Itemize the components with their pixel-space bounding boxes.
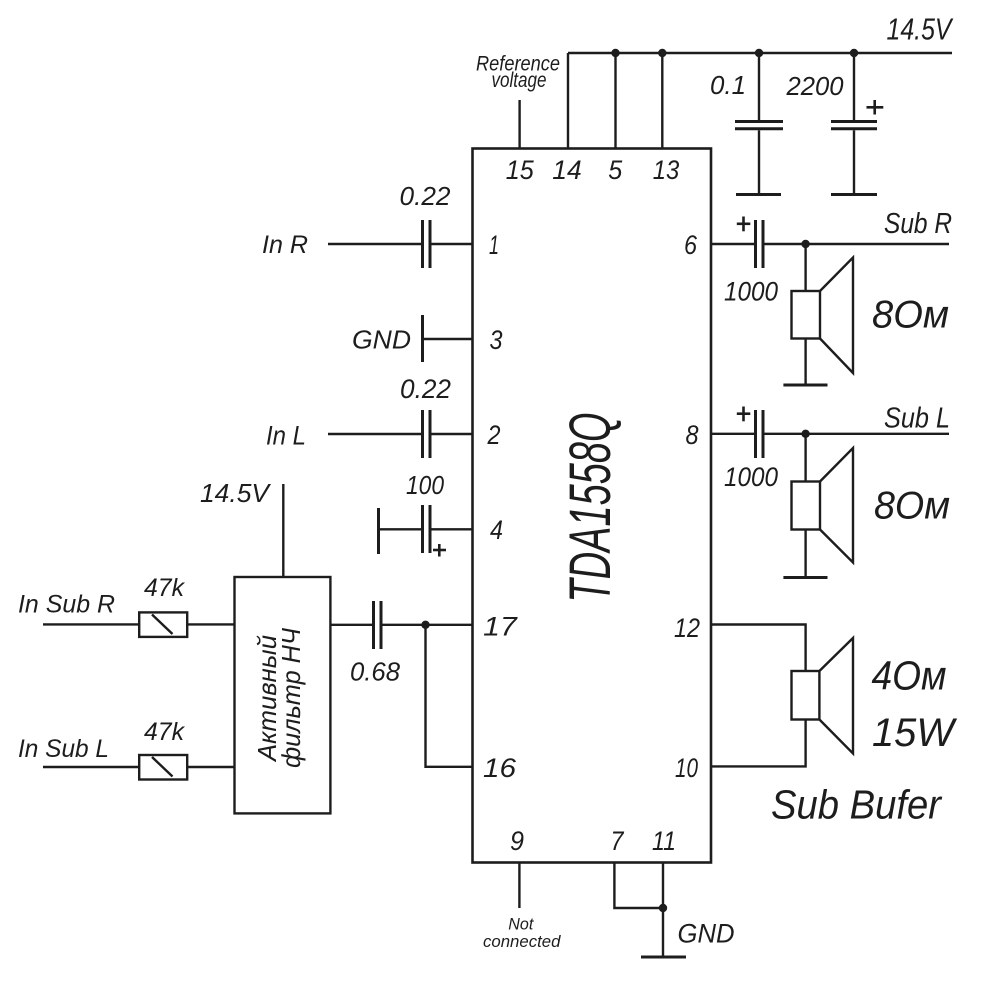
speaker LS1 8 Ohm — [783, 258, 853, 386]
wire 14.5V power rail — [568, 52, 952, 54]
svg-text:GND: GND — [352, 325, 411, 355]
wire pin 6 to C7 — [711, 243, 754, 245]
svg-text:47k: 47k — [144, 718, 185, 746]
wire C8 to Sub L out — [765, 433, 950, 435]
wire C3 to pin 1 — [432, 243, 473, 245]
wire pin 13 to rail — [661, 53, 663, 149]
svg-text:4Ом: 4Ом — [872, 653, 947, 699]
svg-text:17: 17 — [483, 612, 518, 642]
svg-text:11: 11 — [652, 826, 676, 856]
capacitor C6 0.68 — [374, 601, 382, 649]
svg-text:In Sub R: In Sub R — [18, 591, 115, 619]
node junction rail-pin13 — [658, 49, 666, 57]
svg-text:100: 100 — [406, 470, 444, 500]
speaker LS2 8 Ohm — [783, 448, 853, 578]
wire In R to C3 — [328, 243, 421, 245]
svg-text:In R: In R — [262, 231, 308, 259]
wire pin 14 to rail — [567, 53, 569, 149]
svg-text:8Ом: 8Ом — [874, 485, 950, 528]
svg-text:3: 3 — [490, 325, 503, 355]
wire 14.5V to filter box — [282, 484, 284, 577]
op-amp U1 TDA1558Q body — [473, 149, 712, 863]
svg-text:Sub L: Sub L — [884, 403, 950, 435]
wire C4 to pin 2 — [432, 433, 473, 435]
wire In L to C4 — [328, 433, 421, 435]
capacitor C3 0.22 — [423, 220, 431, 268]
svg-text:фильтр НЧ: фильтр НЧ — [276, 628, 306, 768]
wire C7 to Sub R out — [765, 243, 950, 245]
svg-text:1000: 1000 — [724, 277, 778, 307]
svg-text:14: 14 — [552, 155, 581, 185]
wire pin 12 to speaker LS3 — [711, 625, 806, 672]
wire In Sub R to R1 — [43, 623, 139, 625]
wire pin 5 to rail — [614, 53, 616, 149]
wire pin 9 stub — [518, 863, 520, 909]
svg-text:GND: GND — [678, 919, 735, 949]
svg-text:0.68: 0.68 — [350, 657, 401, 687]
svg-text:TDA1558Q: TDA1558Q — [558, 413, 623, 603]
svg-text:15W: 15W — [872, 711, 957, 755]
node junction pin7-pin11 — [659, 904, 667, 912]
svg-text:Not: Not — [508, 915, 534, 934]
resistor R2 47k — [139, 755, 187, 780]
svg-text:0.22: 0.22 — [400, 181, 452, 211]
wire filter out to C6 — [330, 624, 372, 626]
ground stub pin 3 — [421, 315, 424, 362]
svg-text:voltage: voltage — [492, 69, 547, 92]
wire R2 to filter box — [187, 766, 234, 768]
node junction rail-C1 — [755, 49, 763, 57]
svg-text:0.1: 0.1 — [710, 70, 746, 100]
wire R1 to filter box — [187, 623, 234, 625]
wire to speaker LS2 — [804, 434, 806, 482]
node junction pin17 branch — [421, 621, 429, 629]
svg-text:16: 16 — [483, 753, 517, 783]
svg-text:13: 13 — [653, 155, 680, 185]
svg-text:4: 4 — [490, 515, 503, 545]
svg-text:2200: 2200 — [786, 71, 845, 101]
svg-text:In Sub L: In Sub L — [18, 735, 109, 763]
wire C5 to pin 4 — [432, 528, 473, 530]
capacitor C1 0.1 — [735, 53, 783, 195]
capacitor C7 1000 polarized — [737, 217, 763, 269]
svg-text:10: 10 — [675, 753, 698, 783]
node junction speaker Sub L — [801, 430, 809, 438]
svg-text:9: 9 — [510, 826, 524, 856]
node junction speaker Sub R — [801, 240, 809, 248]
svg-text:14.5V: 14.5V — [887, 12, 955, 47]
wire pin 8 to C8 — [711, 433, 754, 435]
svg-text:1: 1 — [489, 230, 499, 260]
svg-text:5: 5 — [608, 155, 623, 185]
wire pin 10 to speaker LS3 — [711, 720, 806, 767]
svg-text:1000: 1000 — [724, 462, 778, 492]
svg-text:6: 6 — [684, 230, 698, 260]
wire C6 to pin 17 — [383, 624, 473, 626]
svg-text:8Ом: 8Ом — [872, 294, 949, 337]
wire In Sub L to R2 — [43, 766, 139, 768]
capacitor C8 1000 polarized — [737, 407, 763, 459]
svg-text:8: 8 — [686, 420, 699, 450]
svg-text:2: 2 — [487, 420, 501, 450]
wire pin 7 to gnd node — [614, 863, 663, 909]
wire pin 15 stub — [518, 100, 520, 149]
wire gnd to pin 3 — [424, 338, 473, 340]
resistor R1 47k — [139, 612, 187, 637]
svg-text:Sub Bufer: Sub Bufer — [771, 782, 943, 828]
speaker LS3 4 Ohm — [792, 638, 854, 754]
capacitor C2 2200 polarized — [831, 53, 883, 195]
node junction rail-pin5 — [611, 49, 619, 57]
svg-text:0.22: 0.22 — [400, 374, 451, 404]
svg-text:7: 7 — [611, 826, 625, 856]
svg-text:12: 12 — [674, 613, 700, 643]
node junction rail-C2 — [850, 49, 858, 57]
svg-text:47k: 47k — [144, 574, 185, 602]
svg-text:14.5V: 14.5V — [200, 478, 272, 508]
wire to speaker LS1 — [804, 244, 806, 291]
svg-text:15: 15 — [506, 155, 535, 185]
wire pin 11 to ground — [662, 863, 664, 957]
svg-text:In L: In L — [266, 421, 306, 451]
active low-pass filter block — [235, 577, 331, 813]
capacitor C5 100 polarized — [379, 505, 447, 557]
svg-text:connected: connected — [483, 932, 561, 951]
ground symbol — [641, 956, 686, 959]
capacitor C4 0.22 — [423, 410, 431, 458]
wire node to pin 16 — [426, 625, 473, 767]
svg-text:Sub R: Sub R — [884, 208, 952, 240]
